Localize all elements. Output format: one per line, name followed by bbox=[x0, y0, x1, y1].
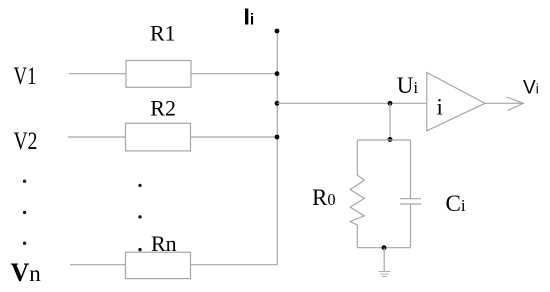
wire top edge of RC tank bbox=[357, 139, 410, 141]
svg-text:Vn: Vn bbox=[11, 258, 42, 287]
junction node top of RC tank bbox=[388, 137, 393, 142]
ground bbox=[378, 271, 390, 273]
svg-text:R0: R0 bbox=[312, 185, 336, 210]
wire bottom edge of RC tank bbox=[357, 247, 410, 249]
wire bus to op-amp input bbox=[277, 102, 427, 104]
svg-text:R1: R1 bbox=[150, 21, 176, 46]
wire R2 to bus bbox=[191, 136, 278, 138]
wire right edge above Ci bbox=[410, 140, 412, 199]
ellipsis dots left column bbox=[23, 180, 26, 183]
capacitor Ci bottom plate bbox=[400, 203, 421, 205]
junction node bottom of RC tank bbox=[382, 245, 387, 250]
wire V1 to R1 bbox=[69, 73, 126, 75]
wire V2 to R2 bbox=[68, 136, 126, 138]
svg-text:i: i bbox=[437, 95, 443, 120]
wire Vn to Rn bbox=[70, 264, 126, 266]
wire left edge above R0 bbox=[356, 140, 358, 175]
wire node Ui down to RC tank bbox=[389, 103, 391, 140]
svg-text:V1: V1 bbox=[14, 63, 37, 90]
wire op-amp output bbox=[485, 102, 523, 104]
junction node Ui bbox=[388, 101, 393, 106]
wire node to ground bbox=[383, 248, 385, 272]
resistor R1 body bbox=[126, 61, 191, 88]
junction node bus/R2 bbox=[275, 135, 280, 140]
svg-text:Ci: Ci bbox=[446, 191, 466, 216]
ellipsis dots middle column bbox=[138, 184, 141, 187]
svg-text:Vi: Vi bbox=[523, 77, 539, 98]
wire left edge below R0 bbox=[356, 225, 358, 248]
svg-text:Ii: Ii bbox=[244, 4, 255, 30]
resistor Rn body bbox=[126, 252, 191, 278]
svg-text:R2: R2 bbox=[150, 96, 176, 121]
wire Rn to bus bbox=[191, 264, 278, 266]
summing bus vertical wire bbox=[276, 31, 278, 265]
junction node top of bus bbox=[275, 29, 280, 34]
svg-text:V2: V2 bbox=[14, 128, 38, 155]
wire R1 to bus bbox=[191, 73, 277, 75]
resistor R0 zigzag bbox=[350, 175, 364, 225]
svg-text:Ui: Ui bbox=[397, 73, 419, 98]
op-amp U1 triangle bbox=[427, 73, 485, 131]
wire right edge below Ci bbox=[410, 204, 412, 248]
resistor R2 body bbox=[126, 123, 191, 151]
junction node bus/amp wire bbox=[275, 101, 280, 106]
capacitor Ci top plate bbox=[400, 198, 421, 200]
junction node bus/R1 bbox=[275, 71, 280, 76]
output arrow head bbox=[507, 97, 524, 111]
